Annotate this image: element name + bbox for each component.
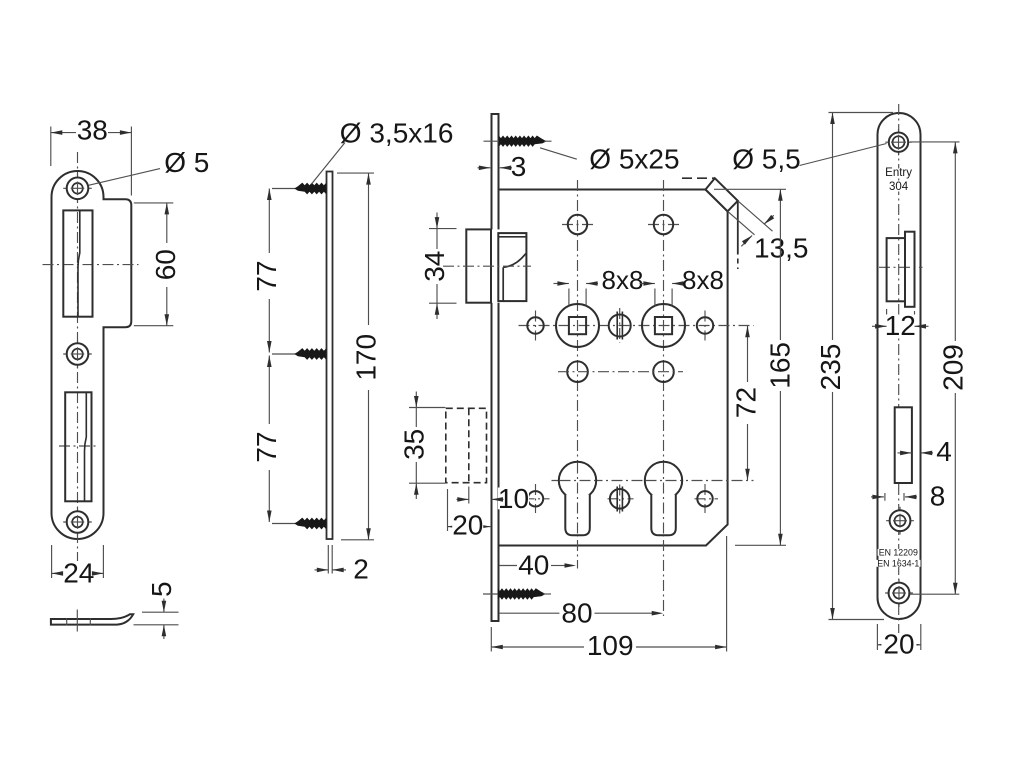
lock faceplate edge outer line xyxy=(491,114,493,229)
svg-text:8: 8 xyxy=(930,481,946,512)
dimension 8x8 left (square follower) xyxy=(568,289,570,306)
dimension 20 (aux bolt depth) xyxy=(447,489,449,531)
svg-text:80: 80 xyxy=(561,598,592,629)
svg-text:20: 20 xyxy=(883,629,914,660)
top hole left xyxy=(562,224,593,226)
label Ø 5,5 with leader xyxy=(800,144,887,166)
deadbolt cutout xyxy=(65,392,91,501)
dimension 165 (case height) xyxy=(714,188,786,190)
screw Ø5x25 top xyxy=(484,140,506,142)
text EN 1634-1 xyxy=(876,560,920,567)
label Ø 5 (screw hole dia) with leader xyxy=(89,169,160,186)
svg-text:EN 1634-1: EN 1634-1 xyxy=(877,558,919,568)
strike plate vertical centerline xyxy=(77,152,79,561)
dimension 80 (backset to cylinder) xyxy=(499,612,560,614)
small hole left (cylinder row) xyxy=(524,498,550,500)
follower row centerline xyxy=(519,325,754,327)
svg-text:Ø 5: Ø 5 xyxy=(164,147,209,178)
lock case outline xyxy=(500,190,728,546)
faceplate screw 2 axis line xyxy=(272,353,297,355)
square hole 8x8 right xyxy=(655,317,672,334)
side profile centerline xyxy=(76,610,78,632)
svg-text:2: 2 xyxy=(353,553,369,584)
strike plate outline (front view) xyxy=(52,171,132,539)
bent corner tab xyxy=(706,178,738,211)
text EN 12209 xyxy=(878,549,920,556)
svg-text:77: 77 xyxy=(251,260,282,291)
dimension 109 (case depth) xyxy=(490,627,492,652)
dimension 20 (faceplate width) xyxy=(876,624,878,650)
spindle follower right xyxy=(642,304,685,347)
lock faceplate edge inner line xyxy=(498,114,500,229)
faceplate screw hole top xyxy=(885,141,911,143)
cylinder slot in faceplate xyxy=(895,407,912,483)
dimension 235 (faceplate length) xyxy=(829,112,894,114)
lock faceplate top and bottom caps xyxy=(491,113,500,115)
dimension 170 (faceplate length) xyxy=(337,172,374,174)
small hole right (cylinder row) xyxy=(695,498,719,500)
dimension 4 (slot to edge) xyxy=(898,452,912,454)
faceplate screw hole bottom xyxy=(885,592,913,594)
dimension 8x8 right (square follower) xyxy=(654,289,656,306)
strike plate latch axis centerline xyxy=(43,264,139,266)
svg-text:38: 38 xyxy=(77,115,108,146)
svg-text:Entry: Entry xyxy=(885,167,912,179)
latch bolt protruding part xyxy=(466,229,491,302)
latch opening in faceplate xyxy=(887,238,905,301)
middle guide hole (follower row) xyxy=(619,308,621,343)
dimension 72 (follower to cylinder) xyxy=(747,326,749,382)
svg-text:Ø 5,5: Ø 5,5 xyxy=(732,144,800,175)
spindle follower left xyxy=(556,304,599,347)
latch cutout xyxy=(63,210,92,316)
svg-text:Ø 3,5x16: Ø 3,5x16 xyxy=(340,117,454,148)
small hole left (follower row) xyxy=(535,311,537,341)
dimension 8 (slot offset) xyxy=(884,493,886,501)
side profile segment ticks xyxy=(66,618,68,625)
faceplate side view plate xyxy=(327,172,333,540)
faceplate screw 2 xyxy=(294,348,326,360)
svg-text:304: 304 xyxy=(889,181,909,193)
follower axis centerline left xyxy=(577,180,579,569)
dimension 12 (latch opening width) xyxy=(886,309,888,332)
dimension 13,5 (corner chamfer) xyxy=(738,201,773,231)
svg-text:34: 34 xyxy=(419,251,450,282)
latch bolt head in opening xyxy=(905,232,915,307)
small hole right (follower row) xyxy=(704,311,706,341)
label Ø 5x25 with leader xyxy=(540,148,577,159)
euro cylinder hole left xyxy=(559,462,596,499)
latch axis centerline xyxy=(443,265,531,267)
dimension 3 (faceplate thickness) xyxy=(478,167,491,169)
dimension 77 upper (screw spacing) xyxy=(268,189,270,254)
svg-text:209: 209 xyxy=(938,344,969,391)
dimension 60 (lip height) xyxy=(134,202,174,204)
dimension 5 (profile height) xyxy=(142,611,179,613)
svg-text:8x8: 8x8 xyxy=(602,265,644,295)
latch opening axis centerline xyxy=(879,266,923,268)
dimension 34 (latch height) xyxy=(429,228,457,230)
svg-text:60: 60 xyxy=(150,249,181,280)
dimension 77 lower (screw spacing) xyxy=(268,356,270,425)
svg-text:72: 72 xyxy=(731,387,762,418)
svg-text:13,5: 13,5 xyxy=(754,233,809,264)
svg-text:20: 20 xyxy=(452,510,483,541)
faceplate front outline xyxy=(878,113,921,619)
screw Ø5x25 bottom xyxy=(483,593,506,595)
svg-text:12: 12 xyxy=(885,310,916,341)
svg-text:109: 109 xyxy=(587,630,634,661)
svg-text:35: 35 xyxy=(399,429,430,460)
faceplate screw 1 axis line xyxy=(272,188,297,190)
corner original edge (dashed) xyxy=(682,177,715,179)
label Ø 3,5x16 (screw size) with leader xyxy=(312,143,346,185)
top hole right xyxy=(648,224,679,226)
dimension 10 (aux bolt to faceplate) xyxy=(468,487,470,504)
svg-text:77: 77 xyxy=(251,431,282,462)
dimension 38 (strike plate width) xyxy=(50,127,52,167)
svg-text:170: 170 xyxy=(351,334,382,381)
svg-text:5: 5 xyxy=(146,581,177,597)
svg-text:EN 12209: EN 12209 xyxy=(879,547,918,557)
strike plate screw hole top xyxy=(63,187,92,189)
svg-text:8x8: 8x8 xyxy=(682,265,724,295)
auxiliary deadbolt (hidden, dashed) xyxy=(446,408,487,482)
faceplate screw hole middle xyxy=(886,520,914,522)
cylinder centerlines over holes xyxy=(577,463,579,535)
svg-text:24: 24 xyxy=(63,557,94,588)
dimension 209 (screw hole spacing) xyxy=(910,141,960,143)
square hole 8x8 left xyxy=(569,317,586,334)
strike plate deadbolt axis centerline xyxy=(59,445,99,447)
faceplate screw 3 xyxy=(294,518,326,530)
svg-text:Ø 5x25: Ø 5x25 xyxy=(589,144,679,175)
strike plate side profile (bent lip) xyxy=(51,614,133,624)
follower axis centerline right xyxy=(663,180,665,616)
svg-text:40: 40 xyxy=(518,550,549,581)
dimension 40 (backset to follower) xyxy=(499,565,517,567)
svg-text:4: 4 xyxy=(936,436,952,467)
middle guide hole (cylinder row) xyxy=(608,498,634,500)
dimension 2 (faceplate thickness) xyxy=(327,545,329,574)
cylinder row centerline xyxy=(552,480,754,482)
dimension 35 (aux bolt height) xyxy=(409,407,446,409)
strike plate screw hole middle xyxy=(63,353,92,355)
dimension 24 (strike plate bottom width) xyxy=(51,545,53,578)
latch bolt inside case xyxy=(498,233,526,301)
lower hole left xyxy=(567,361,588,382)
svg-text:165: 165 xyxy=(765,342,796,389)
lower holes centerline xyxy=(558,371,683,373)
faceplate screw 1 xyxy=(294,183,326,195)
lower hole right xyxy=(653,361,674,382)
svg-text:235: 235 xyxy=(815,344,846,391)
faceplate screw 3 axis line xyxy=(272,523,297,525)
corner tab edge extension line xyxy=(737,201,739,255)
text Entry 304 xyxy=(880,169,917,178)
svg-text:3: 3 xyxy=(511,151,527,182)
euro cylinder hole right xyxy=(645,462,682,499)
faceplate vertical centerline xyxy=(898,104,900,633)
strike plate screw hole bottom xyxy=(63,521,92,523)
